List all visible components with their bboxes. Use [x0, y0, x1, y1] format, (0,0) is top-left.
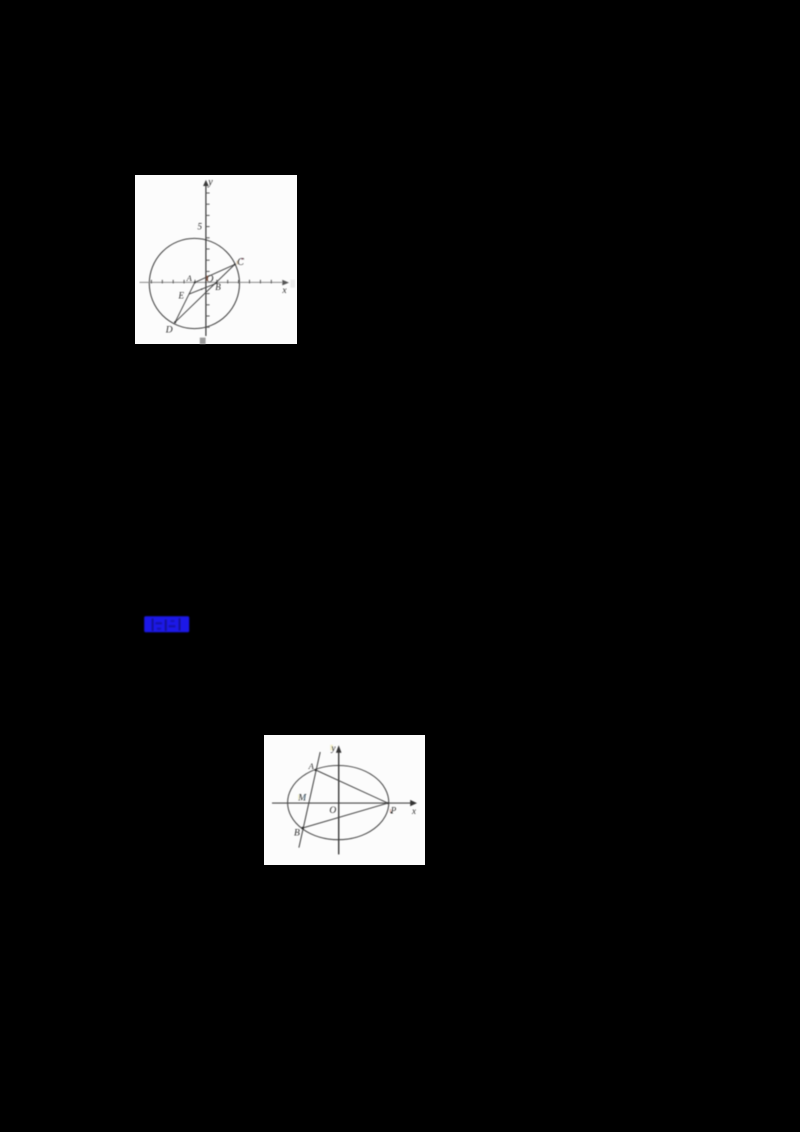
y axis — [338, 751, 340, 854]
svg-text:E: E — [178, 291, 185, 301]
node D — [174, 321, 176, 323]
svg-text:5: 5 — [198, 221, 203, 231]
x axis arrowhead — [410, 800, 417, 806]
chroma artifact left of M — [298, 795, 300, 800]
svg-text:B: B — [294, 829, 300, 839]
x axis — [140, 281, 283, 283]
y axis arrowhead — [203, 180, 209, 186]
svg-text:x: x — [411, 806, 416, 816]
y axis ticks — [206, 193, 210, 327]
chroma artifact on O — [206, 276, 208, 282]
svg-text:y: y — [331, 743, 336, 753]
chroma artifact left of P — [390, 809, 391, 813]
y axis arrowhead — [336, 745, 342, 753]
chroma artifact left of y label — [330, 745, 333, 751]
dot at label P — [391, 812, 393, 814]
x axis ticks — [151, 280, 271, 284]
x axis — [272, 802, 411, 804]
node P — [387, 802, 389, 804]
glyph stroke marks — [151, 618, 153, 631]
svg-text:D: D — [165, 326, 173, 336]
light smudge right of x arrow — [290, 280, 295, 288]
svg-text:A: A — [186, 273, 193, 283]
y axis — [205, 185, 207, 336]
speck on line E-B — [201, 288, 203, 290]
figure 2 panel: ellipse with coordinate axes — [264, 735, 425, 865]
wire segment line B-P — [303, 803, 388, 828]
wire segment line E-B — [189, 283, 217, 294]
node C — [234, 263, 236, 265]
x axis arrowhead — [282, 280, 289, 286]
svg-text:C: C — [237, 257, 244, 268]
svg-text:O: O — [329, 806, 336, 816]
node A — [315, 769, 317, 771]
small gray mark at bottom of y axis — [200, 338, 206, 344]
svg-text:A: A — [308, 761, 315, 771]
chroma dot right of C — [241, 258, 243, 260]
secant line through A, M, B — [299, 752, 320, 848]
node B — [216, 282, 218, 284]
chroma artifact right of M — [303, 795, 305, 800]
wire segment line A-C — [195, 264, 235, 282]
chroma artifact left of C — [237, 261, 238, 265]
wire segment line A-P — [316, 770, 388, 803]
figure 1 panel: circle with coordinate axes — [135, 175, 297, 344]
svg-text:y: y — [207, 177, 213, 188]
circle centered at A(-1,0) radius 4 — [149, 238, 239, 328]
blue highlight base — [144, 616, 189, 632]
blue highlighted text blob — [144, 616, 189, 633]
ellipse — [288, 766, 389, 840]
wire segment line D-C — [175, 264, 235, 322]
node A — [194, 281, 196, 283]
node B — [301, 827, 304, 830]
wire segment line A-D — [175, 282, 195, 322]
svg-text:x: x — [281, 286, 287, 296]
